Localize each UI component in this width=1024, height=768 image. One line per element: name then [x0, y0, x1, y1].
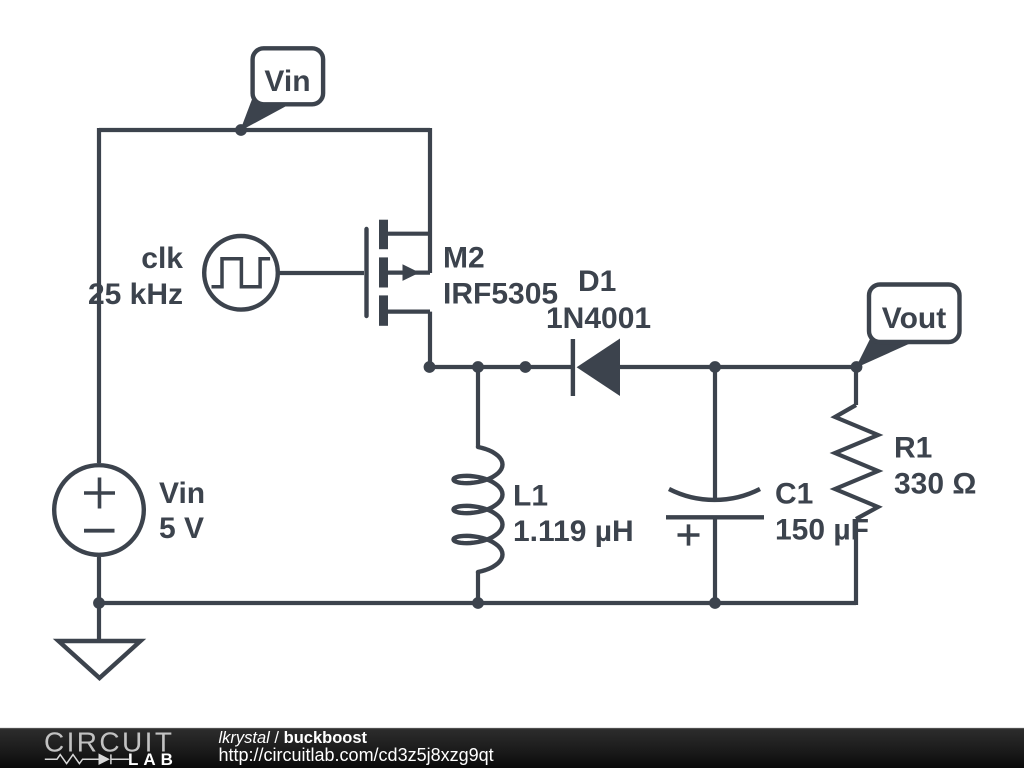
node dot Vin label node	[235, 124, 247, 136]
node dot inductor top junction	[472, 361, 484, 373]
wire left rail	[97, 128, 101, 463]
node dot ground junction	[93, 597, 105, 609]
svg-text:Vout: Vout	[882, 302, 946, 335]
wire inductor bottom lead	[476, 572, 480, 603]
transistor M2 body arrow head	[403, 264, 420, 281]
wire inductor top lead	[476, 367, 480, 447]
svg-text:150 µF: 150 µF	[775, 514, 869, 547]
node dot capacitor bottom junction	[709, 597, 721, 609]
svg-text:http://circuitlab.com/cd3z5j8x: http://circuitlab.com/cd3z5j8xzg9qt	[219, 745, 494, 765]
diode D1 cathode bar	[571, 339, 575, 396]
clock source CLK1 circle	[204, 236, 278, 310]
svg-text:M2: M2	[443, 242, 485, 275]
capacitor C1 plus sign	[678, 524, 700, 545]
svg-text:R1: R1	[894, 432, 932, 465]
diode D1 triangle	[577, 339, 620, 397]
wire M2 drain vertical	[428, 128, 432, 273]
ground symbol	[59, 641, 141, 678]
node dot capacitor top junction	[709, 361, 721, 373]
inductor L1 coil	[454, 447, 503, 572]
voltage source minus sign	[84, 529, 115, 533]
wire capacitor bottom lead	[713, 517, 717, 603]
wire resistor bottom lead	[854, 519, 858, 605]
capacitor C1 bottom plate	[666, 515, 764, 519]
svg-text:Vin: Vin	[159, 477, 205, 510]
transistor M2 channel bar middle	[379, 257, 388, 287]
wire top rail Vin net	[99, 128, 430, 132]
transistor M2 body connection with arrow	[388, 271, 430, 275]
clock source square wave	[212, 259, 271, 287]
transistor M2 channel bar bottom	[379, 295, 388, 325]
wire mid rail right segment	[618, 365, 856, 369]
svg-text:Vin: Vin	[264, 65, 310, 98]
svg-text:5 V: 5 V	[159, 512, 204, 545]
transistor M2 gate line	[364, 229, 368, 316]
footer bar	[0, 728, 1024, 768]
wire M2 source to mid rail	[428, 312, 432, 369]
svg-text:330 Ω: 330 Ω	[894, 468, 976, 501]
net label Vin tail	[240, 98, 290, 131]
node dot inductor bottom junction	[472, 597, 484, 609]
node dot Vout label node	[851, 361, 863, 373]
transistor M2 source connection	[388, 310, 430, 314]
wire clk to gate	[278, 271, 364, 275]
svg-text:C1: C1	[775, 478, 813, 511]
net label Vin bubble	[253, 48, 324, 104]
capacitor C1 top plate arc	[669, 489, 760, 500]
footer logo resistor-diode doodle	[45, 754, 129, 764]
svg-text:1N4001: 1N4001	[546, 302, 651, 335]
voltage source plus sign	[84, 478, 115, 509]
svg-text:clk: clk	[141, 242, 183, 275]
transistor M2 drain connection	[388, 232, 430, 236]
node dot diode anode terminal	[520, 361, 532, 373]
svg-text:1.119 µH: 1.119 µH	[513, 515, 634, 548]
wire capacitor top lead	[713, 367, 717, 501]
svg-text:D1: D1	[578, 265, 616, 298]
wire bottom rail ground net	[99, 601, 856, 605]
wire mid rail left segment	[428, 365, 571, 369]
net label Vout bubble	[869, 285, 960, 343]
wire resistor top lead	[854, 367, 858, 405]
resistor R1 zigzag	[835, 405, 878, 519]
voltage source V1 circle	[54, 465, 144, 555]
svg-text:L1: L1	[513, 480, 548, 513]
transistor M2 channel bar top	[379, 220, 388, 250]
svg-text:LAB: LAB	[128, 750, 178, 768]
wire V1 bottom to ground	[97, 557, 101, 641]
node dot M2 source corner	[424, 361, 436, 373]
net label Vout tail	[856, 337, 912, 368]
svg-text:IRF5305: IRF5305	[443, 278, 558, 311]
svg-text:25 kHz: 25 kHz	[88, 278, 183, 311]
